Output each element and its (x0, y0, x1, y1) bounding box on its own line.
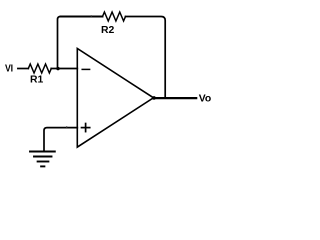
resistor R2 (103, 12, 126, 21)
node Vi label (5, 62, 13, 74)
node output junction (164, 97, 166, 99)
ground (30, 152, 55, 167)
wire non-inverting input (44, 128, 77, 152)
resistor R2 value label (101, 25, 115, 36)
wire feedback top right and right vertical down to output (126, 17, 166, 98)
node Vo label (199, 93, 212, 104)
wire Vi lead to R1 (18, 68, 28, 70)
node anchor tick on non-inverting wire (66, 126, 67, 127)
op-amp U1 inverting input marker (-) (82, 68, 89, 70)
wire feedback left vertical (58, 17, 61, 69)
node op-amp output pin dot (152, 96, 156, 100)
node feedback junction dot (56, 67, 59, 70)
wire feedback top left segment (61, 16, 103, 18)
svg-text:Vo: Vo (199, 93, 212, 104)
resistor R1 value label (30, 75, 44, 86)
op-amp U1 (77, 49, 153, 148)
svg-text:R1: R1 (30, 75, 44, 86)
resistor R1 (28, 64, 51, 73)
wire R1 to inverting input (51, 68, 77, 70)
svg-text:R2: R2 (101, 25, 115, 36)
wire output (154, 97, 197, 99)
svg-text:VI: VI (5, 62, 13, 74)
op-amp U1 non-inverting input marker (+) (82, 124, 90, 132)
node anchor tick on feedback top wire (91, 15, 92, 16)
